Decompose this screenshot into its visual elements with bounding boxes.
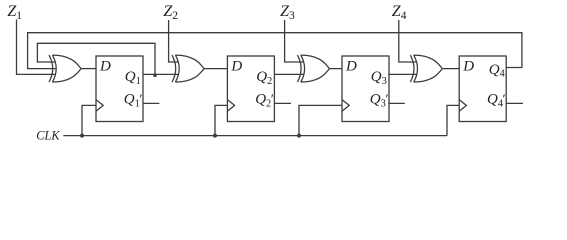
svg-text:Z4: Z4 — [392, 3, 407, 22]
svg-text:CLK: CLK — [36, 128, 60, 142]
svg-text:Q1: Q1 — [125, 69, 141, 87]
svg-text:Z1: Z1 — [7, 3, 22, 22]
svg-text:Q2: Q2 — [256, 69, 272, 87]
svg-text:Q3: Q3 — [371, 69, 387, 87]
svg-text:Z2: Z2 — [163, 3, 178, 22]
svg-text:D: D — [99, 59, 111, 75]
svg-text:D: D — [230, 59, 242, 75]
svg-text:Q2′: Q2′ — [255, 92, 274, 110]
svg-text:Z3: Z3 — [280, 3, 295, 22]
svg-text:Q1′: Q1′ — [124, 92, 143, 110]
svg-text:Q3′: Q3′ — [370, 92, 389, 110]
svg-text:Q4: Q4 — [489, 62, 506, 80]
svg-text:Q4′: Q4′ — [487, 92, 506, 110]
svg-text:D: D — [462, 59, 474, 75]
svg-text:D: D — [345, 59, 357, 75]
